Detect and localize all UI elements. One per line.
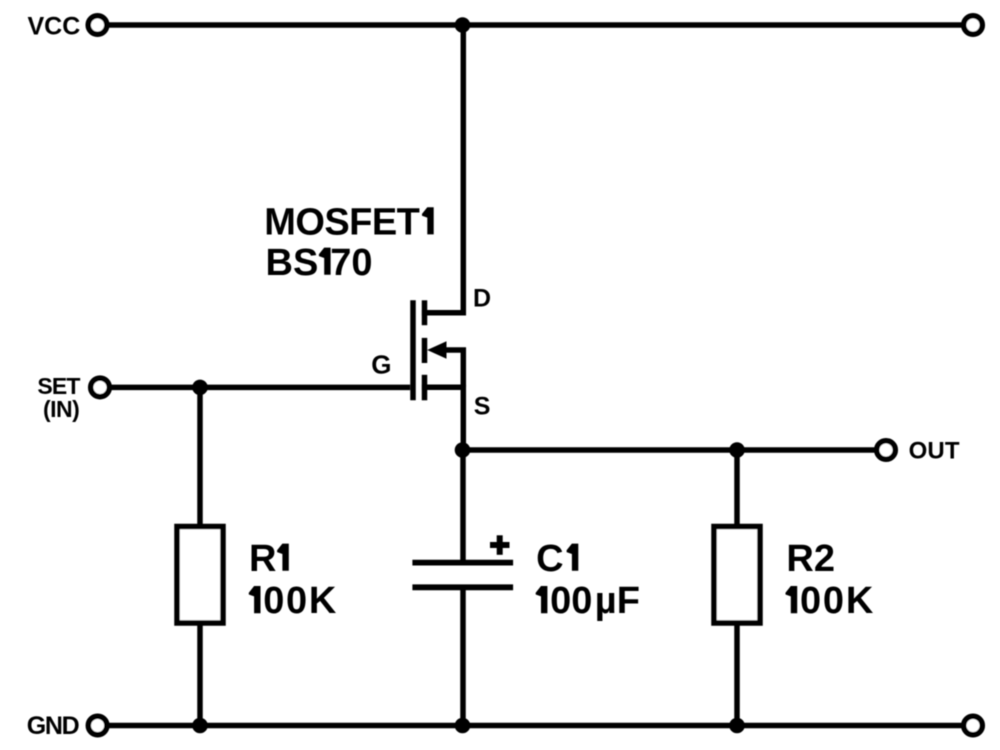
junction GND R2 node: [729, 718, 745, 734]
label GND: [27, 712, 80, 740]
junction SET node: [192, 380, 208, 396]
svg-text:00K: 00K: [263, 580, 337, 622]
junction VCC drain node: [455, 17, 471, 33]
label R1: [249, 538, 289, 580]
label C1: [536, 538, 578, 580]
svg-text:70: 70: [330, 242, 372, 284]
transistor MOSFET1 channel segments: [422, 300, 428, 400]
label pin D: [473, 285, 491, 313]
svg-text:R: R: [249, 538, 276, 580]
svg-text:GND: GND: [27, 712, 80, 740]
transistor MOSFET1 body arrow: [427, 341, 446, 358]
terminal VCC left: [88, 16, 107, 35]
terminal SET: [91, 378, 110, 397]
wire source stub down to node: [422, 387, 463, 450]
label MOSFET1: [264, 201, 434, 243]
svg-text:MOSFET: MOSFET: [264, 201, 420, 243]
svg-text:G: G: [371, 350, 391, 380]
resistor R1: [177, 527, 223, 624]
svg-text:00: 00: [550, 580, 592, 622]
label VCC: [28, 13, 81, 41]
terminal GND right: [964, 716, 983, 735]
label (IN): [43, 396, 80, 422]
wire SET node to R1: [197, 387, 203, 526]
label C1 value 100uF: [536, 580, 640, 622]
wire R1 to GND: [197, 623, 203, 726]
svg-text:R2: R2: [786, 538, 835, 580]
svg-text:VCC: VCC: [28, 13, 81, 41]
terminal OUT: [877, 441, 896, 460]
label SET: [37, 373, 80, 399]
C1 polarity plus: [490, 535, 510, 555]
svg-text:(IN): (IN): [43, 396, 80, 422]
resistor R2: [714, 527, 760, 624]
wire body to source: [444, 350, 463, 387]
label pin S: [474, 393, 491, 421]
svg-text:SET: SET: [37, 373, 80, 399]
wire SET to gate: [100, 385, 410, 391]
svg-text:µF: µF: [595, 580, 640, 622]
svg-text:OUT: OUT: [909, 438, 960, 465]
label OUT: [909, 438, 960, 465]
svg-text:D: D: [473, 285, 491, 313]
label R2: [786, 538, 835, 580]
label BS170: [266, 242, 373, 284]
svg-text:00K: 00K: [800, 580, 874, 622]
svg-text:S: S: [474, 393, 491, 421]
terminal VCC right: [964, 16, 983, 35]
label pin G: [371, 350, 391, 380]
label R2 value 100K: [786, 580, 874, 622]
junction source OUT node: [455, 442, 471, 458]
junction GND R1 node: [192, 718, 208, 734]
terminal GND left: [88, 716, 107, 735]
wire VCC rail: [98, 22, 974, 28]
svg-text:BS: BS: [266, 242, 319, 284]
svg-text:C: C: [536, 538, 563, 580]
capacitor C1: [412, 563, 513, 588]
wire GND rail: [98, 723, 973, 729]
wire OUT node to R2: [734, 450, 740, 527]
wire drain to VCC: [422, 25, 463, 313]
transistor MOSFET1 gate bar: [410, 300, 416, 400]
wire node to C1 top: [460, 450, 466, 562]
wire C1 bottom to GND: [460, 588, 466, 726]
wire R2 to GND: [734, 623, 740, 726]
wire source node to OUT: [463, 447, 886, 453]
junction GND C1 node: [455, 718, 471, 734]
junction R2 OUT node: [729, 442, 745, 458]
label R1 value 100K: [249, 580, 337, 622]
